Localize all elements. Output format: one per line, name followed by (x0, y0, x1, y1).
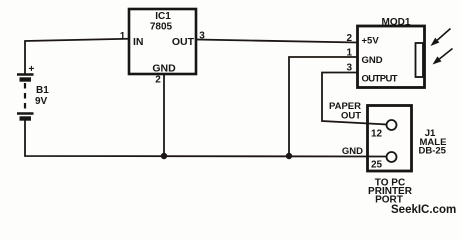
svg-text:B1: B1 (36, 85, 49, 96)
svg-text:OUTPUT: OUTPUT (362, 74, 398, 85)
pin 12 (387, 120, 397, 130)
svg-text:GND: GND (362, 55, 383, 66)
battery B1 (17, 64, 49, 119)
node junction IC1 GND / rail (161, 153, 167, 159)
svg-text:+: + (29, 64, 35, 75)
svg-text:GND: GND (342, 146, 363, 157)
svg-text:SeekIC.com: SeekIC.com (391, 204, 456, 216)
pin 25 (387, 152, 397, 162)
IC IC1 7805 voltage regulator (120, 9, 206, 86)
svg-text:1: 1 (120, 31, 126, 42)
svg-text:MOD1: MOD1 (382, 17, 411, 28)
sensor window of MOD1 (416, 43, 424, 77)
svg-text:2: 2 (155, 75, 161, 86)
svg-text:OUT: OUT (172, 36, 195, 48)
svg-text:DB-25: DB-25 (419, 146, 447, 157)
svg-text:IC1: IC1 (155, 11, 171, 22)
svg-text:9V: 9V (35, 96, 48, 107)
module MOD1 IR receiver (346, 17, 452, 88)
wire IC1 OUT to MOD1 +5V (197, 40, 357, 43)
svg-text:1: 1 (346, 48, 352, 59)
wire battery+ to IC1 IN (25, 39, 128, 74)
wire MOD1 GND pin 1 to ground rail (289, 57, 357, 156)
svg-text:3: 3 (199, 31, 205, 42)
svg-text:3: 3 (346, 63, 352, 74)
node junction MOD1 GND / rail (286, 153, 292, 159)
svg-text:+5V: +5V (362, 36, 380, 47)
wire ground rail (25, 120, 387, 157)
svg-text:12: 12 (371, 129, 383, 140)
arrow 2 (incoming light) (433, 49, 453, 65)
wire IC1 GND pin 2 down to ground rail (163, 74, 165, 156)
arrow 1 (incoming light) (431, 29, 451, 47)
connector J1 MALE DB-25 (329, 101, 447, 206)
wire MOD1 OUTPUT pin 3 to PAPER OUT pin 12 (322, 73, 387, 125)
svg-text:7805: 7805 (150, 22, 173, 33)
svg-text:25: 25 (371, 160, 383, 171)
svg-text:IN: IN (133, 36, 144, 48)
svg-text:GND: GND (152, 63, 176, 75)
svg-text:2: 2 (346, 33, 352, 44)
svg-text:OUT: OUT (341, 111, 361, 122)
